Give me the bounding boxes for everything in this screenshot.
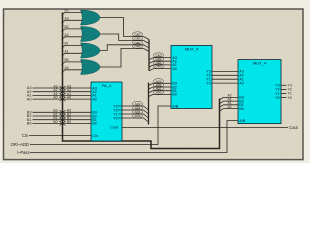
svg-text:A1: A1 — [65, 50, 69, 54]
svg-text:A0: A0 — [27, 96, 33, 101]
svg-text:A0: A0 — [92, 97, 97, 101]
svg-text:OR0: OR0 — [155, 65, 162, 69]
svg-text:Cin: Cin — [22, 133, 29, 138]
svg-text:A0: A0 — [172, 67, 177, 71]
svg-text:A0: A0 — [227, 105, 231, 109]
svg-text:A0: A0 — [65, 66, 69, 70]
svg-text:B0: B0 — [27, 121, 33, 126]
svg-text:B0: B0 — [92, 122, 97, 126]
svg-text:Y0: Y0 — [275, 96, 280, 100]
svg-text:Y0: Y0 — [288, 96, 292, 100]
svg-text:B0: B0 — [239, 107, 244, 111]
svg-text:B0: B0 — [53, 120, 57, 124]
svg-text:Cout: Cout — [289, 125, 299, 130]
svg-text:/~Pass: /~Pass — [17, 150, 30, 155]
svg-text:A2: A2 — [65, 33, 69, 37]
svg-text:A/B: A/B — [172, 104, 179, 108]
svg-text:AD0: AD0 — [135, 114, 141, 118]
svg-text:B2: B2 — [65, 25, 69, 29]
svg-text:MUX_4: MUX_4 — [185, 47, 199, 52]
svg-text:B3: B3 — [65, 9, 69, 13]
svg-text:MUX_4: MUX_4 — [253, 61, 267, 66]
svg-text:A/B: A/B — [239, 119, 246, 123]
svg-text:OR0: OR0 — [134, 44, 141, 48]
svg-text:Y0: Y0 — [113, 116, 118, 120]
svg-text:A0: A0 — [67, 96, 71, 100]
svg-text:A3: A3 — [65, 17, 69, 21]
svg-text:A0: A0 — [239, 81, 244, 85]
svg-text:A0: A0 — [53, 96, 57, 100]
svg-text:Cout: Cout — [110, 126, 119, 130]
svg-text:Y0: Y0 — [206, 81, 211, 85]
svg-text:AD0: AD0 — [156, 90, 162, 94]
svg-text:Cin: Cin — [92, 134, 98, 138]
svg-text:OR/~ADD: OR/~ADD — [11, 142, 29, 147]
svg-text:B0: B0 — [67, 120, 71, 124]
svg-text:B1: B1 — [65, 42, 69, 46]
svg-text:B0: B0 — [172, 93, 177, 97]
svg-text:B0: B0 — [65, 58, 69, 62]
svg-text:FA_4: FA_4 — [102, 83, 112, 88]
